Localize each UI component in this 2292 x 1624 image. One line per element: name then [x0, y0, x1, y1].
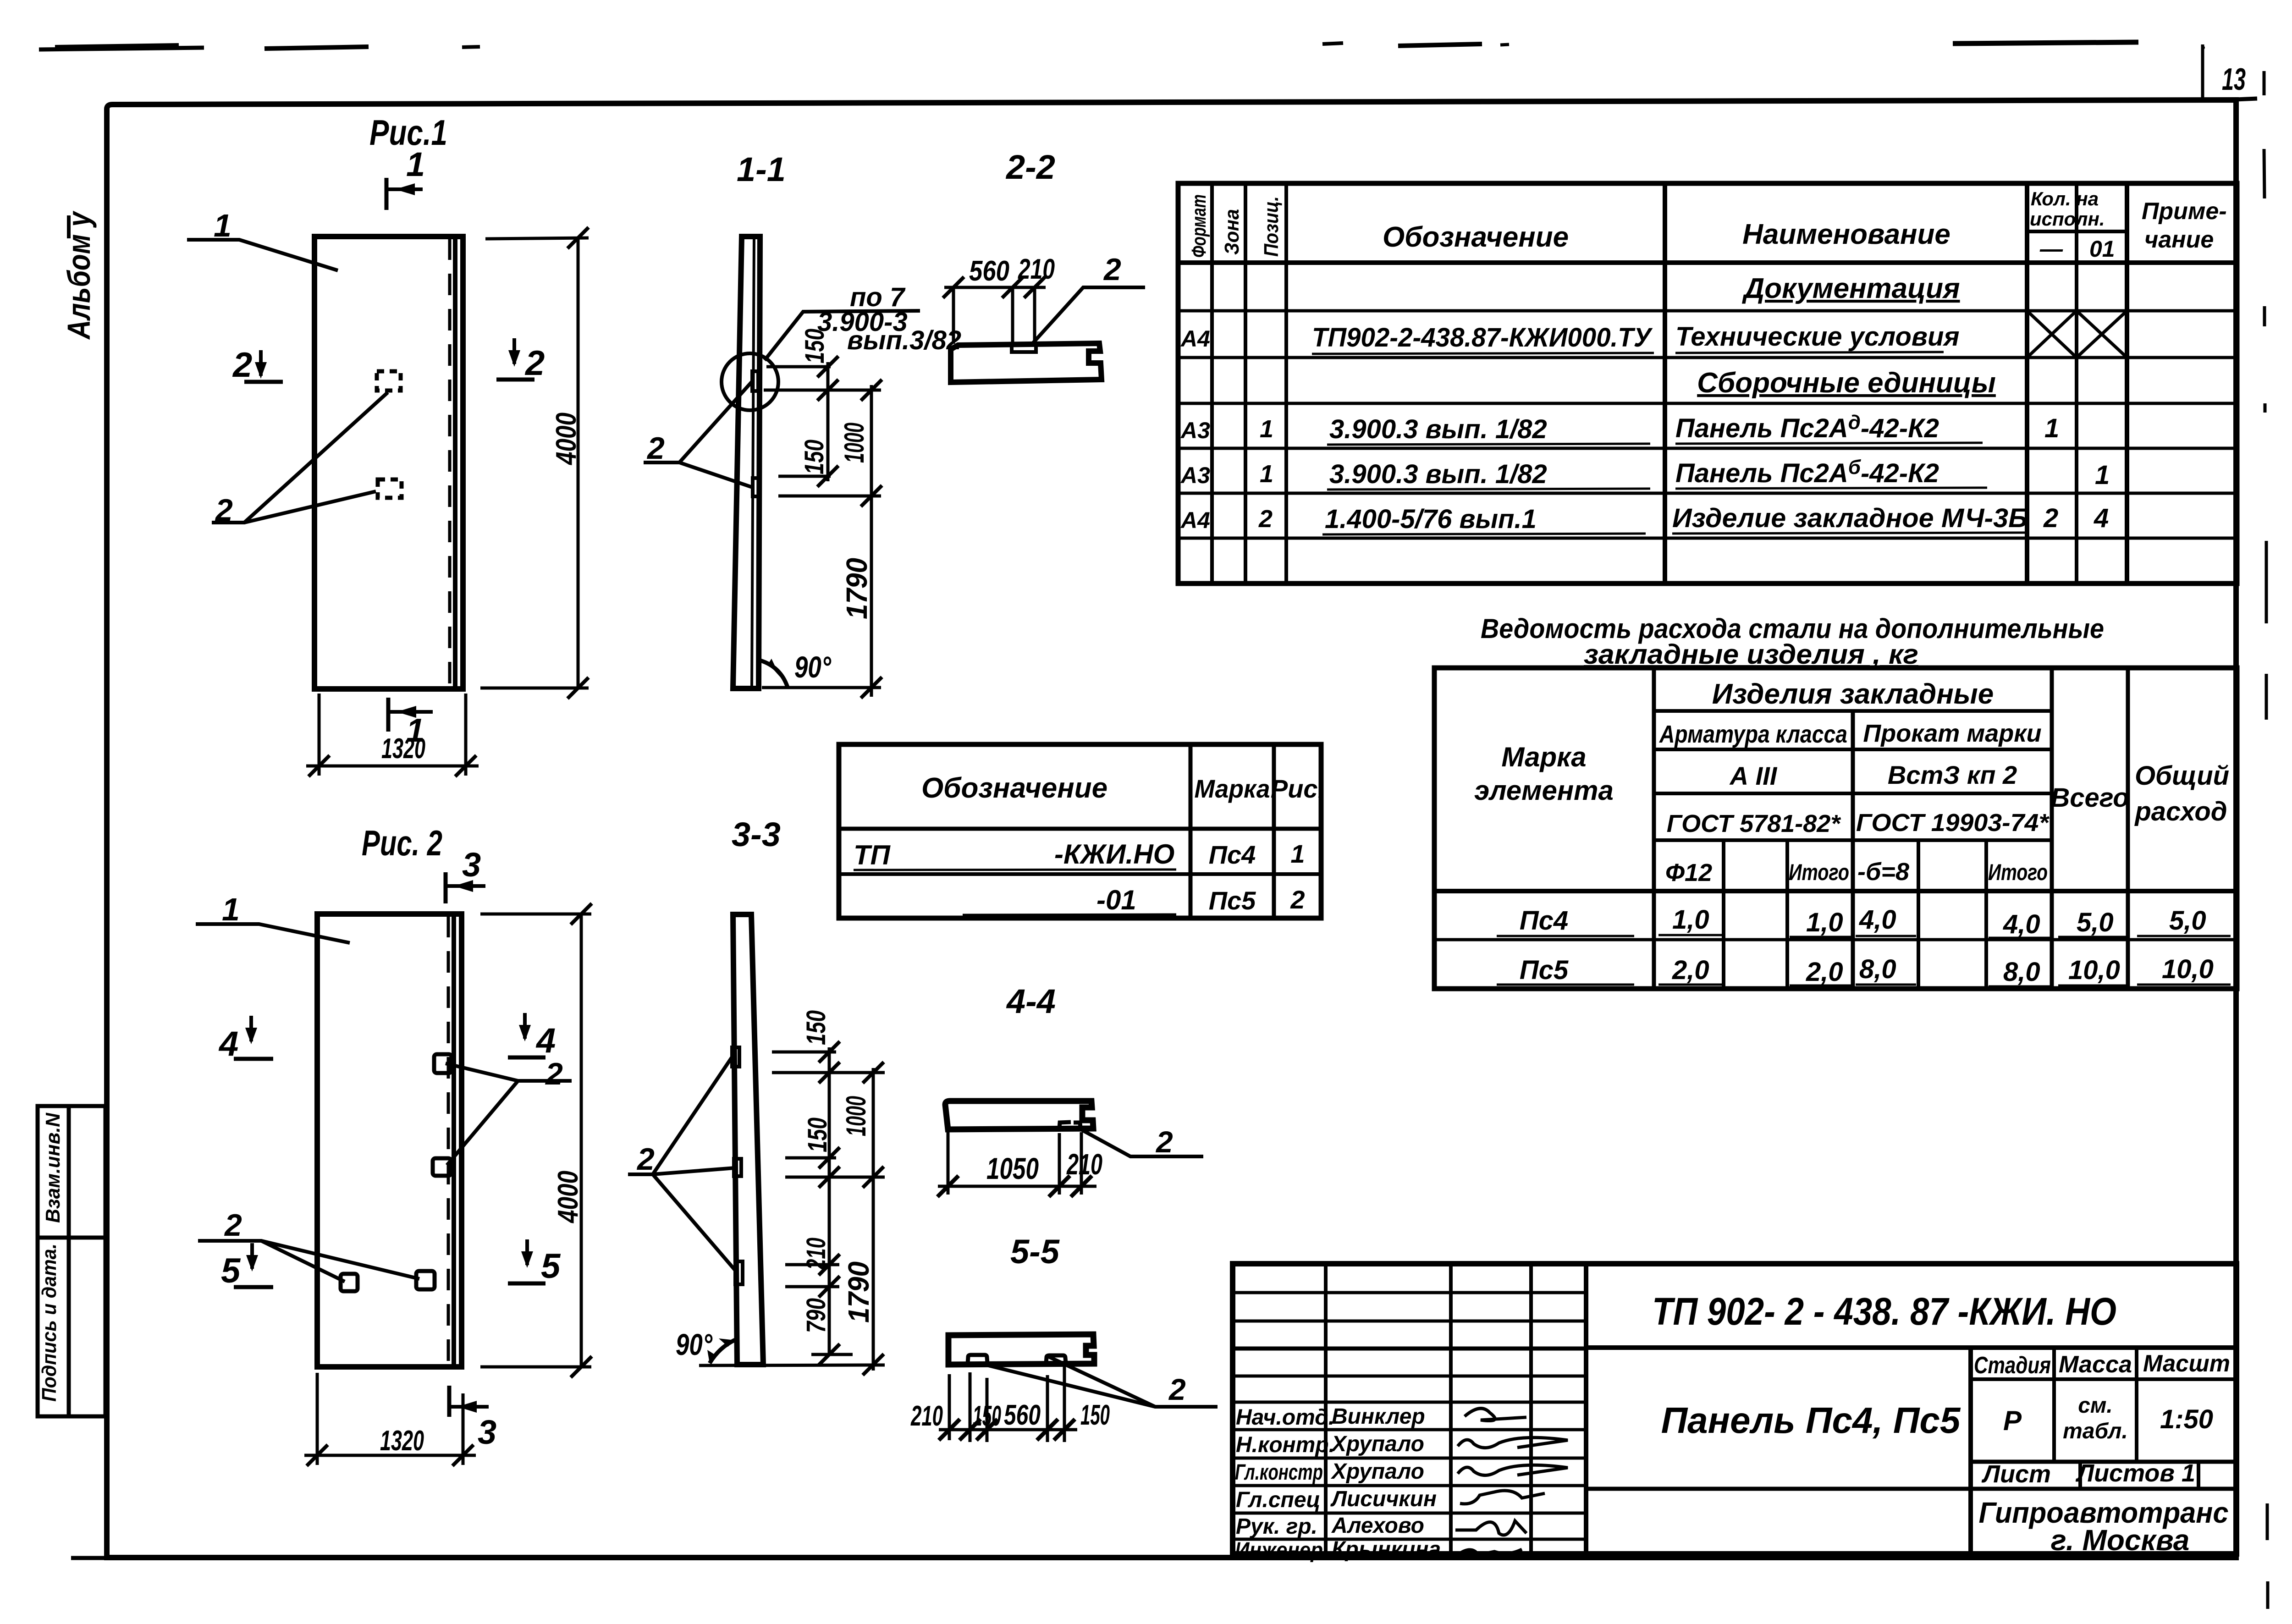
svg-text:Марка: Марка — [1501, 742, 1586, 772]
svg-text:3: 3 — [478, 1413, 496, 1451]
svg-text:2: 2 — [1290, 885, 1305, 914]
svg-text:4,0: 4,0 — [2003, 909, 2040, 939]
svg-text:Итого: Итого — [1789, 859, 1849, 885]
svg-text:Кол. на: Кол. на — [2031, 188, 2099, 209]
svg-text:—: — — [2039, 236, 2063, 262]
svg-text:790: 790 — [801, 1298, 831, 1333]
album label rotated — [61, 210, 97, 340]
svg-text:210: 210 — [801, 1238, 831, 1270]
svg-text:2-2: 2-2 — [1005, 148, 1055, 186]
svg-text:Пс4: Пс4 — [1209, 840, 1256, 869]
svg-text:3.900.3 вып. 1/82: 3.900.3 вып. 1/82 — [1329, 414, 1547, 444]
svg-text:Гл.спец: Гл.спец — [1236, 1488, 1321, 1512]
svg-text:вып.3/82: вып.3/82 — [847, 325, 961, 355]
svg-text:А4: А4 — [1180, 507, 1210, 533]
svg-text:1,0: 1,0 — [1672, 905, 1709, 935]
title block grid — [1233, 1264, 2237, 1554]
svg-text:5,0: 5,0 — [2077, 908, 2114, 937]
svg-text:560: 560 — [1004, 1399, 1041, 1431]
dims 210/150/560/150 (5-5) — [939, 1365, 1077, 1442]
svg-text:Изделия закладные: Изделия закладные — [1712, 678, 1994, 710]
svg-text:210: 210 — [1066, 1148, 1102, 1181]
svg-text:см.: см. — [2078, 1393, 2113, 1418]
handwriting guide underlines (vedomost rows) — [1497, 935, 2231, 986]
panel outline Рис.1 — [314, 237, 463, 689]
svg-text:10,0: 10,0 — [2068, 955, 2120, 985]
svg-text:2,0: 2,0 — [1672, 955, 1709, 985]
svg-text:1: 1 — [1290, 839, 1305, 868]
svg-text:ТП902-2-438.87-КЖИ000.ТУ: ТП902-2-438.87-КЖИ000.ТУ — [1312, 323, 1653, 352]
embedded square 3 (Рис.2) — [341, 1274, 358, 1291]
handwriting guide underlines (mark table) — [854, 870, 1176, 870]
dims 150/150/1000/210/790/1790 (3-3) — [699, 1047, 885, 1371]
svg-text:2: 2 — [524, 344, 545, 383]
svg-text:Формат: Формат — [1188, 194, 1210, 258]
svg-text:2: 2 — [1155, 1125, 1173, 1159]
spec table grid — [1178, 183, 2237, 584]
svg-text:Лисичкин: Лисичкин — [1330, 1487, 1437, 1511]
svg-text:150: 150 — [799, 440, 829, 474]
dimension 560 210 (2-2) — [943, 253, 1055, 344]
svg-text:Масшт: Масшт — [2143, 1350, 2230, 1377]
svg-text:Ф12: Ф12 — [1665, 859, 1712, 886]
svg-text:90°: 90° — [794, 650, 831, 684]
svg-text:Инженер: Инженер — [1235, 1538, 1323, 1563]
svg-text:5-5: 5-5 — [1010, 1233, 1060, 1271]
svg-text:Итого: Итого — [1988, 859, 2048, 885]
panel outline Рис.2 — [317, 914, 462, 1367]
svg-text:Общий: Общий — [2135, 761, 2229, 791]
svg-text:150: 150 — [973, 1400, 1001, 1432]
svg-text:1:50: 1:50 — [2160, 1404, 2213, 1434]
svg-text:-б=8: -б=8 — [1857, 858, 1909, 886]
svg-text:исполн.: исполн. — [2030, 208, 2105, 230]
svg-text:Марка: Марка — [1195, 774, 1270, 803]
svg-text:150: 150 — [1080, 1399, 1110, 1431]
svg-text:01: 01 — [2089, 236, 2115, 262]
bar 5-5 — [948, 1334, 1094, 1365]
svg-text:Хрупало: Хрупало — [1330, 1432, 1424, 1456]
leader 2 (1-1) — [644, 382, 752, 487]
svg-text:1.400-5/76 вып.1: 1.400-5/76 вып.1 — [1325, 504, 1537, 534]
dimension 1320 bottom (Рис.1) — [306, 694, 479, 776]
svg-text:Панель Пс2Аб-42-К2: Панель Пс2Аб-42-К2 — [1675, 456, 1939, 488]
section mark 1 top — [386, 145, 425, 210]
panel bar 3-3 — [733, 914, 763, 1365]
svg-text:1790: 1790 — [842, 1261, 875, 1323]
svg-text:2: 2 — [2043, 503, 2058, 533]
embedded plate 1 (1-1) — [752, 371, 758, 391]
svg-text:Панель Пс2Ад-42-К2: Панель Пс2Ад-42-К2 — [1675, 411, 1939, 443]
embedded item square 1 (dashed) — [377, 371, 401, 391]
svg-text:Зона: Зона — [1221, 209, 1243, 255]
section mark 2 left — [232, 346, 283, 385]
svg-text:1: 1 — [2095, 460, 2110, 490]
svg-text:2: 2 — [1103, 252, 1121, 287]
svg-text:2: 2 — [636, 1142, 655, 1177]
svg-text:-01: -01 — [1096, 885, 1136, 915]
svg-text:1: 1 — [222, 892, 240, 927]
svg-text:4,0: 4,0 — [1859, 905, 1896, 935]
svg-text:5: 5 — [221, 1251, 241, 1290]
svg-text:8,0: 8,0 — [1859, 954, 1896, 984]
svg-text:ТП: ТП — [854, 840, 891, 870]
leader 2 (4-4) — [1081, 1125, 1203, 1159]
svg-text:табл.: табл. — [2063, 1419, 2128, 1443]
leader по 7 / 3.900-3 вып.3/82 — [765, 282, 961, 360]
svg-text:3.900.3 вып. 1/82: 3.900.3 вып. 1/82 — [1329, 459, 1547, 489]
bar 2-2 — [951, 343, 1102, 382]
signature squiggles — [1455, 1409, 1568, 1555]
svg-text:ГОСТ 5781-82*: ГОСТ 5781-82* — [1667, 810, 1842, 837]
svg-text:4-4: 4-4 — [1006, 982, 1056, 1020]
svg-text:560: 560 — [969, 255, 1009, 287]
svg-text:Изделие закладное МЧ-3Б: Изделие закладное МЧ-3Б — [1672, 503, 2028, 533]
svg-text:Подпись и дата.: Подпись и дата. — [38, 1244, 61, 1402]
embedded plate (2-2) — [1012, 345, 1036, 352]
svg-text:Наименование: Наименование — [1742, 219, 1950, 250]
svg-text:Приме-: Приме- — [2142, 198, 2227, 225]
right page-edge dashes — [2264, 149, 2268, 1609]
section mark 3 bottom — [449, 1386, 496, 1451]
svg-text:расход: расход — [2134, 797, 2227, 826]
svg-text:элемента: элемента — [1474, 775, 1614, 806]
svg-text:ГОСТ 19903-74*: ГОСТ 19903-74* — [1856, 809, 2050, 837]
svg-text:Алехово: Алехово — [1331, 1514, 1424, 1538]
svg-text:4: 4 — [2094, 503, 2109, 533]
panel joint dashed line (Рис.2) — [447, 916, 450, 1365]
svg-text:3: 3 — [462, 846, 481, 884]
svg-text:2,0: 2,0 — [1806, 957, 1843, 987]
svg-text:-КЖИ.НО: -КЖИ.НО — [1054, 839, 1174, 870]
leader 2 to lower squares (Рис.2) — [198, 1208, 419, 1282]
svg-text:210: 210 — [1018, 253, 1055, 285]
svg-text:1320: 1320 — [381, 733, 425, 765]
embedded square 1 (Рис.2) — [434, 1054, 452, 1073]
detail circle — [722, 353, 778, 410]
panel bar 1-1 — [733, 237, 760, 688]
svg-text:1050: 1050 — [986, 1151, 1039, 1185]
svg-text:Пс5: Пс5 — [1209, 886, 1256, 915]
leader 2 (2-2) — [1031, 252, 1145, 345]
embedded plate 3 (3-3) — [735, 1261, 743, 1284]
dims 150/1000/150/1790 (1-1) — [762, 362, 881, 697]
svg-text:1: 1 — [1260, 460, 1273, 488]
svg-text:Пс5: Пс5 — [1520, 955, 1569, 985]
svg-text:Обозначение: Обозначение — [1383, 221, 1569, 253]
svg-text:1320: 1320 — [380, 1425, 424, 1457]
embedded plate 1 (5-5) — [968, 1355, 987, 1364]
svg-text:Панель Пс4, Пс5: Панель Пс4, Пс5 — [1661, 1400, 1961, 1441]
embedded square 4 (Рис.2) — [416, 1271, 435, 1289]
svg-text:Крынкина: Крынкина — [1332, 1537, 1441, 1562]
svg-text:4: 4 — [535, 1021, 556, 1060]
vedomost grid — [1434, 668, 2237, 989]
svg-text:Всего: Всего — [2050, 783, 2129, 813]
embedded plate 2 (3-3) — [734, 1159, 741, 1176]
svg-text:13: 13 — [2222, 62, 2246, 97]
svg-text:Технические условия: Технические условия — [1675, 322, 1960, 352]
dimension 4000 right (Рис.2) — [480, 903, 592, 1377]
svg-text:2: 2 — [224, 1208, 242, 1243]
svg-text:Арматура класса: Арматура класса — [1658, 721, 1847, 748]
svg-text:2: 2 — [1258, 505, 1273, 533]
svg-text:150: 150 — [800, 329, 830, 363]
svg-text:210: 210 — [910, 1400, 943, 1432]
leader 2 (5-5) — [979, 1357, 1218, 1407]
svg-text:Лист: Лист — [1981, 1460, 2051, 1488]
svg-text:Прокат марки: Прокат марки — [1863, 720, 2041, 747]
handwriting guide underlines (spec rows) — [1312, 352, 2026, 534]
svg-text:150: 150 — [803, 1118, 832, 1152]
svg-text:10,0: 10,0 — [2162, 954, 2214, 984]
svg-text:Альбом у: Альбом у — [61, 210, 97, 340]
90° corner (3-3) — [676, 1327, 736, 1363]
dimension 1320 bottom (Рис.2) — [304, 1373, 476, 1466]
svg-text:4000: 4000 — [552, 1171, 584, 1224]
svg-text:Масса: Масса — [2059, 1351, 2132, 1378]
svg-text:Обозначение: Обозначение — [921, 772, 1107, 804]
embedded square 2 (Рис.2) — [433, 1158, 451, 1176]
svg-text:2: 2 — [1168, 1372, 1186, 1406]
svg-text:1000: 1000 — [841, 1096, 871, 1136]
svg-text:4000: 4000 — [551, 413, 582, 466]
section mark 3 top — [446, 846, 485, 903]
section mark 5 left — [221, 1243, 273, 1290]
svg-text:Взам.инв.N: Взам.инв.N — [42, 1112, 64, 1223]
svg-text:8,0: 8,0 — [2003, 957, 2040, 987]
svg-text:Сборочные единицы: Сборочные единицы — [1697, 367, 1996, 399]
svg-text:Пс4: Пс4 — [1520, 906, 1568, 936]
section mark 1 bottom — [388, 698, 433, 749]
svg-text:Р: Р — [2003, 1405, 2022, 1436]
svg-text:1-1: 1-1 — [737, 150, 786, 188]
svg-text:г. Москва: г. Москва — [2051, 1524, 2190, 1557]
svg-text:1000: 1000 — [839, 423, 870, 463]
section mark 2 right — [496, 338, 545, 383]
svg-text:5: 5 — [541, 1247, 561, 1286]
svg-text:2: 2 — [232, 346, 252, 385]
svg-text:1790: 1790 — [840, 558, 873, 619]
svg-text:1: 1 — [1260, 415, 1273, 443]
svg-text:1,0: 1,0 — [1806, 908, 1843, 937]
panel joint dashed line — [448, 238, 452, 687]
dimension 4000 right (Рис.1) — [480, 227, 589, 699]
svg-text:1: 1 — [406, 145, 425, 183]
svg-text:ТП 902- 2 - 438. 87 -КЖИ. НО: ТП 902- 2 - 438. 87 -КЖИ. НО — [1652, 1290, 2116, 1333]
svg-text:3-3: 3-3 — [732, 815, 781, 853]
svg-text:Рук. гр.: Рук. гр. — [1236, 1514, 1317, 1539]
svg-text:Н.контр.: Н.контр. — [1236, 1433, 1335, 1457]
svg-text:А4: А4 — [1180, 326, 1210, 352]
svg-text:150: 150 — [801, 1010, 831, 1045]
svg-text:закладные изделия , кг: закладные изделия , кг — [1584, 639, 1918, 670]
svg-text:ВстЗ кп 2: ВстЗ кп 2 — [1888, 760, 2017, 789]
leader 2 to upper squares (Рис.2) — [446, 1057, 572, 1165]
svg-text:Нач.отд.: Нач.отд. — [1236, 1405, 1334, 1430]
svg-text:А3: А3 — [1180, 462, 1210, 488]
embedded plate 2 (5-5) — [1046, 1355, 1066, 1364]
svg-text:1: 1 — [2044, 413, 2059, 443]
svg-text:А III: А III — [1729, 761, 1778, 790]
dims 1050 210 (4-4) — [938, 1131, 1096, 1195]
svg-text:чание: чание — [2144, 226, 2214, 253]
svg-text:А3: А3 — [1180, 418, 1210, 443]
top edge scan dashes — [39, 42, 2138, 50]
embedded plate 2 (1-1) — [753, 478, 759, 496]
svg-text:Гл.констр: Гл.констр — [1235, 1460, 1323, 1485]
X marks quantity — [2027, 311, 2127, 358]
embedded plate (4-4) — [1059, 1122, 1080, 1128]
embedded plate 1 (3-3) — [732, 1047, 739, 1067]
svg-text:Рис.: Рис. — [1271, 774, 1325, 803]
svg-text:Хрупало: Хрупало — [1330, 1459, 1424, 1484]
svg-text:5,0: 5,0 — [2169, 906, 2206, 936]
embedded item square 2 (dashed) — [378, 479, 402, 498]
svg-text:Стадия: Стадия — [1974, 1352, 2051, 1379]
svg-text:Документация: Документация — [1741, 273, 1960, 304]
svg-text:Рис. 2: Рис. 2 — [362, 823, 442, 863]
bar 4-4 — [945, 1101, 1093, 1129]
svg-text:90°: 90° — [676, 1327, 712, 1361]
svg-text:Винклер: Винклер — [1332, 1404, 1425, 1429]
leader 1 (panel mark Рис.2) — [196, 892, 350, 943]
svg-text:Листов 1: Листов 1 — [2075, 1459, 2195, 1487]
svg-text:2: 2 — [545, 1057, 563, 1091]
section mark 4 right — [508, 1013, 556, 1060]
page number 13 — [2201, 44, 2264, 101]
svg-text:2: 2 — [646, 431, 665, 466]
leader 2 to squares — [212, 392, 388, 528]
section mark 4 left — [218, 1016, 273, 1063]
90° corner (1-1) — [760, 650, 831, 687]
left side stamp boxes — [38, 1106, 105, 1416]
section mark 5 right — [508, 1239, 561, 1286]
leader 1 (panel mark) — [187, 208, 338, 270]
leader 2 (3-3) — [628, 1054, 737, 1272]
svg-text:Позиц.: Позиц. — [1260, 196, 1283, 257]
